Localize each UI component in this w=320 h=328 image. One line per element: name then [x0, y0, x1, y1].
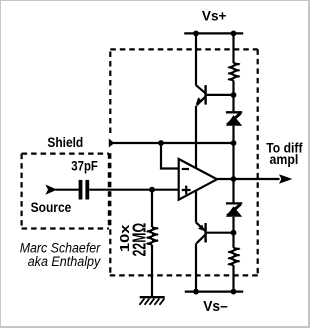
wire R3 to Vs- rail: [232, 265, 234, 291]
node dot Vs+ left: [193, 31, 199, 37]
node dot Q1 base: [231, 92, 237, 98]
zener diode D1: [226, 112, 242, 125]
ground: [140, 297, 165, 305]
wire R2 to ground: [151, 245, 153, 297]
node dot shield on right rail: [231, 140, 237, 146]
node dot output: [231, 176, 237, 182]
resistor R1: [228, 63, 239, 81]
svg-text:37pF: 37pF: [71, 158, 98, 174]
svg-text:Vs+: Vs+: [202, 8, 227, 23]
node dot Vs- right: [231, 289, 237, 295]
transistor Q1 collector: [196, 85, 205, 93]
svg-text:Source: Source: [31, 200, 72, 216]
transistor Q2 emitter with arrow: [196, 222, 205, 231]
output arrow to diff ampl: [279, 174, 292, 184]
svg-text:22MΩ: 22MΩ: [128, 223, 149, 257]
wire Vs- rail: [185, 291, 243, 293]
node dot Vs+ right: [231, 31, 237, 37]
wire Q2 collector to Vs- rail: [195, 243, 197, 291]
wire right rail from Vs+ to R1: [232, 33, 234, 63]
wire source to capacitor: [56, 189, 79, 191]
transistor Q2 collector: [197, 235, 206, 244]
node dot shield to inverting input: [158, 140, 164, 146]
resistor R2 22Mohm: [147, 227, 158, 245]
wire Q1 emitter to op-amp V+ pin: [195, 106, 197, 168]
shield terminal arrow: [109, 139, 115, 148]
node dot input to 22M: [149, 187, 155, 193]
svg-text:ampl: ampl: [270, 152, 299, 167]
shield line wire: [113, 142, 234, 144]
capacitor C1 37pF: [79, 180, 90, 200]
op-amp U1: [179, 159, 217, 200]
wire 22M resistor top: [151, 190, 153, 228]
node dot Vs- left: [193, 289, 199, 295]
node dot Q2 base: [231, 230, 237, 236]
wire D1 down right rail through shield node and output node to D2: [232, 126, 234, 203]
wire Vs+ rail: [184, 32, 243, 34]
wire D2 to Q2 base node: [232, 217, 234, 248]
source dashed box: [22, 153, 109, 228]
wire Q1 base to node: [207, 94, 234, 96]
wire left rail from Vs+ to Q1 collector: [195, 33, 197, 85]
svg-text:Vs–: Vs–: [203, 299, 228, 315]
transistor Q2 base bar: [204, 223, 206, 243]
svg-text:Shield: Shield: [47, 135, 83, 151]
transistor Q1 base bar: [204, 85, 206, 105]
wire Q2 base to node: [207, 232, 234, 234]
shield dashed box: [110, 49, 258, 275]
resistor R3: [228, 248, 239, 265]
wire inverting input step: [161, 143, 179, 169]
wire op-amp V- pin down to Q2: [195, 191, 197, 223]
transistor Q1 emitter with arrow: [196, 97, 206, 106]
svg-text:aka Enthalpy: aka Enthalpy: [28, 254, 102, 269]
zener diode D2: [226, 203, 242, 216]
wire op-amp output: [217, 178, 280, 180]
wire capacitor to op-amp + input: [89, 189, 179, 191]
wire R1 to D1: [232, 81, 234, 112]
source input arrow: [45, 185, 57, 195]
